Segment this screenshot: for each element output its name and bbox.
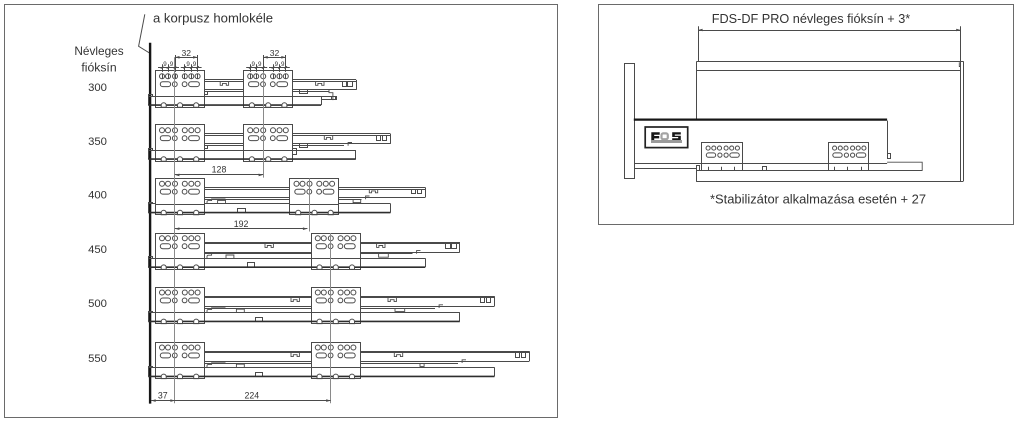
row 450: notch below intermediate line after block2 <box>379 254 389 257</box>
row 500: notch on bar top line <box>236 309 244 312</box>
drawer slide row 300: cabinet profile (lower bar) <box>148 95 321 106</box>
mounting bracket block row 550 rear <box>311 343 360 379</box>
svg-text:9: 9 <box>170 61 174 68</box>
row 550: notch on bar top line <box>236 364 244 367</box>
row 500: clip inside lower bar <box>256 318 263 322</box>
hole-spacing dimensions (rear block): extension lines <box>251 55 286 72</box>
drawer box outline <box>697 61 964 182</box>
row 350: cabinet profile bottom edge (thick) <box>148 158 356 160</box>
row 300: notch after block2 <box>300 90 308 94</box>
mounting bracket block row 450 front <box>155 234 204 270</box>
svg-text:9: 9 <box>258 61 262 68</box>
drawer slide row 550: cabinet profile (lower bar) <box>148 367 494 377</box>
row 450: cabinet profile bottom edge (thick) <box>148 266 425 268</box>
row 550: rail end double clip <box>516 353 526 358</box>
mounting bracket block row 400 rear <box>290 179 339 215</box>
row 400: rail end double clip <box>412 190 422 194</box>
row 350: notch after block2 <box>300 144 308 148</box>
dimension 9/9 right pair (front block) <box>181 61 202 69</box>
svg-text:9: 9 <box>163 61 167 68</box>
svg-text:500: 500 <box>88 298 107 310</box>
row 550: staircase step after block1 <box>207 363 225 368</box>
mounting bracket block row 500 rear <box>311 288 360 324</box>
centerline rear blocks rows 300-350 <box>263 57 265 177</box>
svg-text:a korpusz homlokéle: a korpusz homlokéle <box>153 11 273 26</box>
row 450: rail clip at x=265 <box>265 244 273 248</box>
mounting bracket block row 450 rear <box>311 234 360 270</box>
svg-text:37: 37 <box>158 391 168 401</box>
carcass front edge (thick vertical line) <box>149 43 151 404</box>
small clip left of plate 1 <box>697 166 700 171</box>
block row 550 rear: bottom locating bumps <box>311 374 360 379</box>
block row 450 front: bottom locating bumps <box>155 265 204 270</box>
row 400: notch on bar top line <box>218 200 226 203</box>
right panel border <box>599 5 1014 225</box>
row 550: intermediate member lines <box>204 360 466 364</box>
row 450: staircase step after block1 <box>207 254 225 259</box>
row 350: upper rail (drawer member) <box>204 134 390 144</box>
svg-text:Névleges: Névleges <box>74 44 123 58</box>
svg-text:FDS-DF PRO névleges fióksín +: FDS-DF PRO névleges fióksín + 3* <box>712 12 911 26</box>
svg-text:300: 300 <box>88 82 107 94</box>
row 450: rail end double clip <box>446 244 457 249</box>
row 300: rail clip at x=316 <box>316 82 324 86</box>
row 550: notch below intermediate line after block2 <box>420 363 424 366</box>
row 400: rail clip at x=369 <box>369 189 377 193</box>
mounting bracket block row 350 front <box>155 125 204 162</box>
drawer box top-right corner bracket <box>959 62 960 66</box>
mounting bracket block row 300 front <box>155 71 204 108</box>
svg-text:9: 9 <box>186 61 190 68</box>
row 450: notch on bar top line <box>226 255 234 258</box>
bottom strip of drawer box <box>697 170 923 172</box>
svg-text:450: 450 <box>88 244 107 256</box>
svg-text:550: 550 <box>88 353 107 365</box>
svg-text:350: 350 <box>88 136 107 148</box>
mounting bracket block row 350 rear <box>244 125 293 162</box>
svg-text:9: 9 <box>251 61 255 68</box>
FDS logo <box>645 127 688 148</box>
svg-text:224: 224 <box>244 391 259 401</box>
row 400: staircase step after block1 <box>207 199 225 204</box>
drawer slide row 350: cabinet profile (lower bar) <box>148 149 356 160</box>
row 500: upper rail (drawer member) <box>204 296 494 306</box>
dimension 32 (rear block) <box>263 48 286 59</box>
row 300: upper rail (drawer member) <box>204 80 356 90</box>
row 550: rail clip at x=394 <box>394 353 402 357</box>
row 500: rail clip at x=388 <box>388 298 396 302</box>
row 400: clip inside lower bar <box>238 209 246 213</box>
hole-spacing dimensions (front block): extension lines <box>163 55 198 72</box>
svg-text:9: 9 <box>193 61 197 68</box>
dimension 224 <box>175 391 331 402</box>
left panel border <box>5 5 558 418</box>
block row 500 front: bottom locating bumps <box>155 319 204 324</box>
row 350: small notch after block1 <box>205 146 208 149</box>
dimension 9/9 left pair (rear block) <box>246 61 267 69</box>
drawer slide row 500: cabinet profile (lower bar) <box>148 312 460 322</box>
row 400: upper rail (drawer member) <box>204 187 425 197</box>
dimension 9/9 right pair (rear block) <box>269 61 290 69</box>
centerline rear block row 400 <box>309 178 311 231</box>
row 500: cabinet profile bottom edge (thick) <box>148 320 460 322</box>
hole plate 2 <box>828 143 868 171</box>
hole plate 1 <box>702 143 743 171</box>
dimension 128 <box>175 164 263 176</box>
row 300: rail end double clip <box>343 82 353 87</box>
row 400: notch below intermediate line after block2 <box>353 199 361 202</box>
svg-text:400: 400 <box>88 189 107 201</box>
row 500: notch below intermediate line after block2 <box>395 308 405 311</box>
overall length dimension line <box>698 26 961 62</box>
row 550: rail clip at x=291 <box>291 353 299 357</box>
row 300: small notch after block1 <box>205 92 208 95</box>
block row 450 rear: bottom locating bumps <box>311 265 360 270</box>
mounting bracket block row 300 rear <box>244 71 293 108</box>
front panel <box>625 64 635 179</box>
svg-text:*Stabilizátor alkalmazása eset: *Stabilizátor alkalmazása esetén + 27 <box>710 191 926 206</box>
row 300: intermediate member lines <box>204 90 336 100</box>
dimension 37 <box>151 391 175 402</box>
svg-text:9: 9 <box>275 61 279 68</box>
row 350: intermediate member lines <box>204 143 352 146</box>
svg-text:128: 128 <box>212 164 227 174</box>
leader line to carcass front edge <box>139 14 151 53</box>
drawer slide row 400: cabinet profile (lower bar) <box>148 203 390 213</box>
row 450: upper rail (drawer member) <box>204 242 459 253</box>
block row 350 front: bottom locating bumps <box>155 157 204 162</box>
dimension 9/9 left pair (front block) <box>158 61 179 69</box>
svg-text:fióksín: fióksín <box>81 61 116 75</box>
svg-text:192: 192 <box>234 219 249 229</box>
block row 500 rear: bottom locating bumps <box>311 319 360 324</box>
row 350: rail clip at x=324 <box>324 136 332 140</box>
row 500: rail end double clip <box>481 298 491 303</box>
row 400: cabinet profile bottom edge (thick) <box>148 212 390 214</box>
dimension 192 <box>175 219 308 230</box>
row 500: rail clip at x=291 <box>291 298 299 302</box>
row 500: intermediate member lines <box>204 305 443 309</box>
row 550: cabinet profile bottom edge (thick) <box>148 375 494 377</box>
row 500: staircase step after block1 <box>207 308 225 313</box>
row 550: upper rail (drawer member) <box>204 351 529 361</box>
mounting bracket block row 400 front <box>155 179 204 215</box>
drawer slide row 450: cabinet profile (lower bar) <box>148 257 425 268</box>
rail lower flange toward front panel <box>635 168 697 170</box>
row 550: clip inside lower bar <box>256 373 263 377</box>
mounting bracket block row 550 front <box>155 343 204 379</box>
row 300: cabinet profile bottom edge (thick) <box>148 104 321 106</box>
slide rail (side view) <box>634 120 922 171</box>
block row 400 front: bottom locating bumps <box>155 210 204 215</box>
block row 300 rear: bottom locating bumps <box>244 103 293 108</box>
centerline rear blocks rows 450-550 <box>330 233 332 403</box>
row 350: rail end double clip <box>377 136 387 141</box>
small clip right of plate 1 <box>763 167 767 171</box>
centerline through front blocks <box>174 57 176 403</box>
row 350: clip at bar top after block2 <box>293 149 297 155</box>
row 450: intermediate member lines <box>204 251 420 254</box>
row 450: clip inside lower bar <box>248 263 255 268</box>
svg-text:32: 32 <box>182 48 192 58</box>
block row 550 front: bottom locating bumps <box>155 374 204 379</box>
row 400: intermediate member lines <box>204 196 369 200</box>
block row 400 rear: bottom locating bumps <box>290 210 339 215</box>
row 450: rail clip at x=377 <box>377 244 385 248</box>
svg-text:9: 9 <box>281 61 285 68</box>
block row 300 front: bottom locating bumps <box>155 103 204 108</box>
dimension 32 (front block) <box>175 48 198 59</box>
row 300: rail clip at x=220 <box>220 82 228 86</box>
svg-text:32: 32 <box>270 48 280 58</box>
block row 350 rear: bottom locating bumps <box>244 157 293 162</box>
mounting bracket block row 500 front <box>155 288 204 324</box>
